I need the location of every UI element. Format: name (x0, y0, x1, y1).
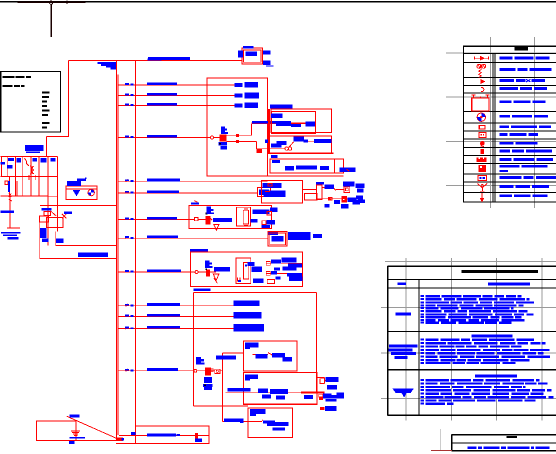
tap 3 destination label (235, 103, 259, 109)
tap 8 box label (272, 236, 284, 242)
specification note box (1, 72, 61, 133)
cluster below-right label (268, 231, 278, 235)
legend symbol column divider (493, 54, 495, 202)
tap circuit 5 (y=181.3) long (118, 179, 268, 182)
left cluster lower glyphs (5, 181, 17, 197)
notes section3 title (475, 375, 517, 378)
titleblock border (452, 435, 556, 451)
notes header separators (388, 280, 556, 288)
left cluster low rail (1, 195, 49, 197)
thick vertical trunk (268, 109, 270, 154)
wire block to CT upper (227, 124, 252, 137)
notes section2 text block (421, 339, 551, 364)
titleblock gray vertical (440, 429, 442, 451)
legend gray grid horizontals (446, 53, 556, 186)
metering bus thick line (251, 122, 315, 124)
t10 small box (211, 369, 223, 374)
box2 title label (245, 374, 258, 380)
bottom box lower edge extension (116, 442, 135, 444)
left cluster cell labels (1, 158, 56, 168)
center label right of block (214, 267, 230, 272)
thick horizontal trunk (268, 152, 333, 154)
tap circuit 10 (y=370.8) (118, 368, 194, 371)
tap 8 destination nested box (268, 232, 287, 247)
CT compartment box B (269, 136, 332, 154)
box A title label (270, 105, 293, 109)
wire block lower branch (227, 140, 285, 153)
wire to box 3 (223, 420, 262, 422)
tap 6 destination box (258, 188, 271, 197)
transformer unit box (center) (190, 252, 302, 287)
t10 switch block (205, 368, 211, 376)
long feeder line y=392.2 (226, 391, 325, 393)
legend txt row6 (500, 115, 549, 118)
metering bus blue label (252, 121, 316, 127)
meter box label inside (246, 52, 258, 56)
ground label above (70, 414, 80, 417)
legend txt row4 (500, 87, 548, 90)
generator blue triangle (73, 190, 80, 196)
box C labels (271, 155, 356, 172)
left switch glyphs (42, 208, 72, 218)
legend txt row5 (500, 100, 546, 103)
box3 left outside label (240, 420, 244, 423)
meter box label above (243, 46, 254, 48)
device box D (262, 180, 303, 203)
load box 3 (248, 408, 293, 438)
titleblock black blob (506, 436, 517, 438)
left bus connection y=245.3 (56, 244, 117, 246)
legend txt row14 (500, 185, 550, 188)
legend sym row9: dot lamp (480, 141, 484, 146)
meter box label right (263, 50, 270, 54)
left cluster cell verticals lower (9, 176, 39, 196)
center relay frame (236, 258, 251, 284)
t10 wire (197, 370, 205, 372)
legend sym row5: cabinet (471, 95, 489, 111)
legend txt row3 (500, 79, 546, 82)
legend title block (515, 47, 529, 50)
left cluster top rail (1, 156, 58, 158)
cluster E row1 labels (316, 182, 364, 193)
feeder circuit row 2 (y=316.5) (118, 314, 236, 317)
row 3 destination label (234, 324, 265, 331)
tap 6 box label (259, 189, 269, 195)
ground diagonal bond wire (67, 416, 117, 438)
t10 ring (194, 369, 197, 372)
legend sym row4: arc contact (481, 87, 484, 91)
t10 label above (196, 357, 204, 365)
metering cabinet outer box A (271, 109, 332, 133)
row 2 destination label (234, 312, 262, 318)
earth V glyph (214, 225, 219, 231)
center switch block (206, 269, 210, 276)
page top border (0, 1, 556, 3)
box1 contents (253, 353, 292, 362)
feeder riser (134, 60, 136, 443)
left transformer wavy lead (24, 158, 29, 166)
notes section divider 2 (388, 369, 556, 371)
contactor label below (219, 142, 227, 149)
legend sym row10: filled bar (481, 149, 484, 154)
feeder mid labels (258, 389, 288, 399)
left vertical y245 leg (55, 231, 57, 245)
box B labels (265, 137, 332, 148)
legend row separators (463, 54, 556, 193)
legend sym row6: pie meter (477, 113, 485, 121)
center block label F (205, 260, 213, 268)
notes section divider 1 (388, 331, 556, 333)
tap circuit 1 (y=85) (118, 82, 235, 85)
main distribution box outline (207, 78, 268, 176)
cluster E row2 labels (325, 195, 366, 208)
legend gray grid vertical 1 (490, 37, 492, 208)
bus incoming label (98, 62, 116, 69)
left bus connection y=205.3 (40, 204, 117, 206)
tap circuit 6 (y=192.9) (118, 190, 258, 193)
feeder circuit row 1 (y=305.8) (118, 303, 234, 306)
maroon underline (431, 449, 452, 451)
box2 bottom double rail (244, 403, 317, 405)
center right tick (210, 272, 217, 283)
bottom box labels (131, 432, 202, 442)
contactor block (219, 135, 226, 142)
switch label above (207, 207, 215, 214)
box3 wire label left (224, 418, 244, 422)
generator circle box (66, 186, 97, 199)
junction riser (222, 353, 224, 422)
notes section3 text block (421, 379, 554, 405)
lower distribution frame (194, 292, 317, 406)
t10 labels below (203, 377, 213, 390)
legend txt row7 (500, 125, 552, 128)
CT circles (285, 142, 294, 150)
utility meter box (double) (242, 48, 263, 64)
notes label column divider (418, 280, 420, 416)
contactor label above (221, 127, 228, 135)
ground blue mark below (69, 441, 75, 444)
spec text line 1 (3, 76, 32, 78)
tap circuit 9 (y=272) (118, 269, 196, 272)
tap circuit 8 (y=238.2) (118, 236, 269, 239)
switch black mark (206, 213, 208, 215)
switch block (206, 216, 211, 225)
switchgear cluster box (y=219 group) (189, 206, 271, 229)
branch to box1 (223, 352, 244, 354)
bus bottom terminal block (116, 437, 123, 440)
spec value column (42, 92, 50, 129)
relay compartment box C (270, 159, 344, 173)
switch right tick (210, 218, 212, 220)
notes title black bar (462, 270, 538, 273)
left bus connection y=258.4 (40, 257, 117, 259)
box1 title label (245, 343, 258, 350)
tap circuit 7 (y=219.5) (118, 217, 195, 220)
notes section1 left label (396, 313, 411, 316)
cluster E wire row 1 (303, 185, 350, 199)
legend sym row12: filled cabinet (478, 165, 486, 172)
box3 title label (250, 409, 265, 416)
legend sym row14: goblet (478, 184, 488, 192)
load box 1 (244, 341, 297, 371)
incoming feeder line (69, 59, 242, 61)
legend sym row11: notched block (477, 157, 487, 162)
legend txt row9 (500, 142, 538, 145)
switch contact square (194, 218, 205, 221)
left lower labels (42, 238, 63, 243)
wire drop to spec box (46, 60, 69, 156)
left cluster mid rail (1, 175, 58, 177)
legend txt row11 (500, 158, 554, 161)
legend sym row3: arrowhead (481, 80, 485, 84)
antenna mast symbol (18, 1, 86, 38)
left ground box (36, 421, 116, 441)
right mini cluster (317, 377, 344, 411)
meter box label lower right (263, 61, 274, 67)
legend sym row2: transformer (477, 64, 486, 77)
center V glyph (213, 274, 219, 280)
bottom box wire (119, 434, 209, 436)
legend sym row15: down arrow (480, 193, 483, 202)
center box title bar (190, 249, 208, 252)
notes table outer border (388, 266, 556, 415)
legend txt row1 (500, 57, 550, 60)
center black mark (205, 268, 207, 270)
cluster box label above (191, 201, 199, 205)
center box right feeder rows (266, 261, 302, 283)
notes section2 left label (389, 345, 418, 359)
center box below label (193, 289, 210, 291)
main bus bar (117, 60, 119, 440)
notes section2 title (471, 335, 512, 338)
tap 1 destination label (235, 82, 259, 88)
titleblock blue row (468, 446, 550, 449)
bottom feeder box (135, 426, 209, 444)
notes header left dash (398, 283, 407, 285)
wire ring to block (214, 137, 220, 139)
left cluster bottom labels (1, 210, 21, 239)
left lower box (46, 217, 63, 227)
spec text line 2 (3, 85, 25, 87)
notes header right text (488, 283, 530, 286)
contactor ring (210, 136, 213, 139)
legend txt row15 (500, 194, 548, 197)
tap 8 right big label (288, 232, 322, 240)
tap circuit 2 (y=95.5) (118, 93, 235, 96)
ground blue bar (69, 437, 85, 439)
box A inner label (271, 114, 282, 118)
legend txt row12 (500, 165, 548, 172)
metering cabinet inner box A2 (271, 112, 315, 134)
box C bottom rail (207, 175, 344, 177)
legend sym row7: small box (479, 125, 485, 129)
legend sym row13: box with blue (478, 176, 486, 181)
load box 2 (244, 372, 317, 404)
branch label below (216, 355, 236, 359)
box C inner divider (334, 159, 336, 173)
left vertical y258 leg (39, 222, 41, 259)
box2 inner labels (276, 395, 313, 400)
legend table outer border (463, 46, 556, 202)
bus top label (147, 59, 161, 61)
legend txt row10 (500, 150, 553, 153)
legend txt row13 (500, 176, 556, 179)
center ring contact (195, 271, 198, 274)
tap circuit 4 (y=137.5) with contactor (118, 135, 211, 138)
box D labels (263, 183, 286, 197)
left cluster title label (25, 145, 44, 153)
tap circuit 3 (y=105.5) (118, 103, 235, 106)
legend txt row2 (500, 68, 552, 71)
switch right label (213, 218, 232, 222)
cluster E wire row 2 (304, 193, 355, 202)
box3 contents (262, 420, 289, 431)
left cluster cell verticals upper (1, 157, 39, 177)
center relay bottom marks (238, 278, 242, 282)
ground symbol (71, 421, 80, 436)
row 1 destination label (234, 300, 260, 305)
tap 2 destination label (235, 93, 260, 99)
center wire to block (198, 271, 206, 273)
generator labels (67, 178, 87, 186)
long feeder label (227, 388, 250, 392)
legend txt row8 (500, 133, 539, 136)
legend sym row1: disconnect arrow (474, 57, 489, 60)
bus bottom blue mark (121, 438, 124, 441)
incoming line label (148, 57, 190, 60)
relay frame in cluster (236, 207, 250, 226)
notes gray grid verticals (406, 258, 542, 421)
left cluster right column (39, 157, 57, 246)
left y258 label (78, 253, 108, 258)
left transformer coils (29, 166, 35, 180)
legend gray grid vertical 2 (534, 37, 536, 208)
legend sym row8: crossed box (479, 133, 486, 138)
left blue bar (40, 228, 46, 238)
notes section3 left label (393, 389, 414, 398)
notes gray grid horizontals (381, 261, 556, 398)
left cluster bottom leg (7, 196, 20, 228)
notes section1 text block (421, 295, 535, 324)
center box right labels (248, 257, 303, 282)
feeder circuit row 3 (y=328.6) (118, 326, 239, 329)
meter box label left (238, 50, 243, 57)
cluster right labels (251, 208, 278, 228)
